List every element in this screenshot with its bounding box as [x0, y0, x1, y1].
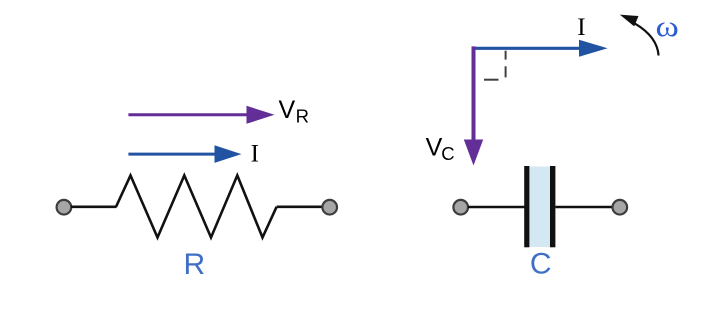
svg-text:V: V [279, 96, 296, 124]
label VC [426, 134, 455, 165]
phasor arrow I left (blue) [128, 145, 241, 163]
resistor R [116, 175, 277, 237]
node: right terminal of resistor [322, 200, 337, 215]
right-angle marker (dashed) [484, 51, 506, 80]
svg-text:I: I [577, 14, 585, 41]
wire: left lead of resistor [71, 206, 117, 209]
svg-text:I: I [251, 141, 259, 168]
svg-text:R: R [296, 105, 309, 126]
rotation arrow (omega arc) [620, 15, 659, 56]
wire: left lead of capacitor [468, 206, 525, 209]
svg-text:C: C [530, 248, 552, 281]
phasor arrow VC (purple) [464, 46, 483, 165]
svg-text:ω: ω [656, 10, 679, 43]
label VR [279, 96, 309, 127]
phasor arrow I right (blue) [472, 40, 608, 57]
node: left terminal of resistor [57, 200, 72, 215]
capacitor C [524, 166, 555, 247]
phasor arrow VR (purple) [128, 106, 274, 124]
node: right terminal of capacitor [613, 200, 628, 215]
wire: right lead of capacitor [555, 206, 613, 209]
svg-text:R: R [184, 248, 206, 281]
wire: right lead of resistor [277, 206, 323, 209]
node: left terminal of capacitor [453, 200, 468, 215]
label omega [656, 10, 679, 43]
svg-text:V: V [426, 134, 443, 162]
svg-text:C: C [441, 143, 454, 164]
